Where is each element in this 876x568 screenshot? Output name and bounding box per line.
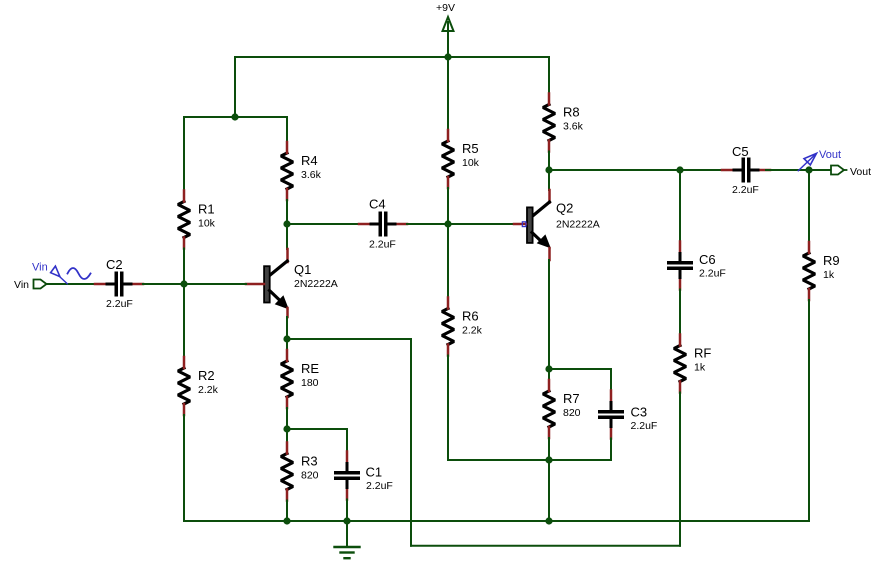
- wire x=549 R8 to collector node: [548, 152, 550, 191]
- node emitter junction (287,339): [283, 335, 290, 342]
- wire x=448 R6 bottom: [447, 356, 449, 461]
- svg-text:Vout: Vout: [819, 149, 841, 161]
- wire x=549 R7 to bottom: [548, 438, 550, 521]
- resistor RE: [281, 350, 319, 408]
- svg-text:2.2k: 2.2k: [198, 384, 219, 396]
- wire x=347 C1 top: [346, 429, 348, 452]
- wire C5 to output port: [766, 169, 830, 171]
- resistor R7: [543, 380, 581, 438]
- wire x=287 R3 to ground rail: [286, 501, 288, 522]
- node junction (549,521): [545, 517, 552, 524]
- node junction (287,429): [283, 425, 290, 432]
- wire x=287 RE to R3: [286, 408, 288, 443]
- wire x=549 top to R8: [548, 57, 550, 94]
- svg-text:R6: R6: [462, 309, 479, 324]
- svg-text:R1: R1: [198, 202, 215, 217]
- capacitor C3: [598, 391, 657, 439]
- capacitor C1: [334, 452, 393, 500]
- svg-text:R2: R2: [198, 368, 215, 383]
- node junction (235,117): [231, 113, 238, 120]
- svg-text:R7: R7: [563, 391, 580, 406]
- wire left column x=184 upper: [183, 117, 185, 191]
- svg-text:2.2uF: 2.2uF: [369, 239, 396, 251]
- probe Vin (blue): [51, 266, 91, 284]
- wire x=611 C3 bottom: [610, 439, 612, 461]
- node junction (809,170): [805, 166, 812, 173]
- wire output rail y=170: [549, 169, 726, 171]
- svg-text:820: 820: [563, 407, 581, 419]
- svg-text:RE: RE: [301, 361, 319, 376]
- transistor Q1 2N2222A: [246, 249, 338, 317]
- svg-text:2.2k: 2.2k: [462, 325, 483, 337]
- svg-text:820: 820: [301, 470, 319, 482]
- wire x=611 C3 top: [610, 369, 612, 391]
- wire x=680 C6 top: [679, 170, 681, 242]
- node junction (549,369): [545, 365, 552, 372]
- svg-text:Vin: Vin: [32, 262, 48, 274]
- svg-text:C1: C1: [366, 465, 383, 480]
- capacitor C2: [95, 257, 143, 310]
- resistor R4: [281, 142, 322, 200]
- svg-text:R8: R8: [563, 105, 580, 120]
- svg-text:1k: 1k: [694, 362, 706, 374]
- probe Vout (blue): [798, 153, 816, 170]
- wire feedback x=411 down: [410, 339, 412, 546]
- wire x=287 R4 to Q1 collector: [286, 200, 288, 249]
- wire x=680 RF to bottom feedback rail: [679, 393, 681, 546]
- svg-text:RF: RF: [694, 346, 711, 361]
- svg-text:2.2uF: 2.2uF: [631, 420, 658, 432]
- wire feedback y=339 emitter to x=411: [287, 338, 411, 340]
- svg-text:Vin: Vin: [14, 279, 29, 291]
- power +9V symbol: [436, 2, 455, 57]
- node junction (680,170): [676, 166, 683, 173]
- resistor R9: [803, 242, 840, 300]
- node junction (448,224): [444, 220, 451, 227]
- wire x=809 R9 top: [808, 170, 810, 242]
- node +9V junction: [444, 53, 451, 60]
- node Q1 collector junction (287,224): [283, 220, 290, 227]
- node junction (287,521): [283, 517, 290, 524]
- ground: [335, 521, 360, 558]
- wire y=460 R6/R7/C3 bottom link: [448, 459, 611, 461]
- wire x=184 mid: [183, 249, 185, 358]
- svg-text:R4: R4: [301, 153, 318, 168]
- svg-text:2.2uF: 2.2uF: [106, 298, 133, 310]
- svg-text:10k: 10k: [198, 218, 216, 230]
- svg-text:2N2222A: 2N2222A: [294, 278, 338, 290]
- resistor R8: [543, 94, 584, 152]
- wire Q1 emitter down: [286, 317, 288, 350]
- wire C2 to Q1 base: [143, 283, 246, 285]
- capacitor C6: [667, 242, 726, 290]
- wire x=809 R9 to ground rail: [808, 300, 810, 521]
- wire left drop from top rail: [234, 57, 236, 117]
- resistor R1: [178, 191, 216, 249]
- wire y=369 to C3: [549, 368, 611, 370]
- svg-text:2.2uF: 2.2uF: [366, 480, 393, 492]
- svg-text:R3: R3: [301, 454, 318, 469]
- svg-text:C4: C4: [369, 197, 386, 212]
- resistor R6: [442, 298, 483, 356]
- svg-text:C6: C6: [699, 252, 716, 267]
- wire y=224 collector node to C4: [287, 223, 359, 225]
- resistor R3: [281, 443, 319, 501]
- wire x=680 C6 to RF: [679, 290, 681, 335]
- node junction (549,460): [545, 456, 552, 463]
- node output junction (549,170): [545, 166, 552, 173]
- svg-text:2.2uF: 2.2uF: [732, 184, 759, 196]
- svg-text:C3: C3: [631, 405, 648, 420]
- resistor R5: [442, 130, 480, 188]
- svg-text:3.6k: 3.6k: [301, 169, 322, 181]
- svg-text:R5: R5: [462, 141, 479, 156]
- wire feedback bottom y=545.7: [411, 545, 680, 547]
- node base junction (184,284): [180, 280, 187, 287]
- wire y=117 R1/R4 top: [184, 116, 287, 118]
- svg-text:Q2: Q2: [556, 201, 573, 216]
- wire y=429 to C1: [287, 428, 347, 430]
- capacitor C4: [359, 197, 407, 251]
- transistor Q2 2N2222A: [514, 190, 600, 260]
- wire x=448 top: [447, 57, 449, 130]
- svg-text:2.2uF: 2.2uF: [699, 268, 726, 280]
- wire Q2 emitter down x=549: [548, 260, 550, 380]
- svg-text:Vout: Vout: [850, 166, 871, 178]
- svg-text:2N2222A: 2N2222A: [556, 219, 600, 231]
- port Vin input: [14, 279, 47, 291]
- svg-text:R9: R9: [823, 253, 840, 268]
- wire x=448 R5 to node: [447, 188, 449, 298]
- wire top rail +9V y=57: [235, 56, 549, 58]
- svg-text:C5: C5: [732, 144, 749, 159]
- svg-text:180: 180: [301, 377, 319, 389]
- capacitor C5: [722, 144, 770, 196]
- node junction (347,521): [343, 517, 350, 524]
- wire x=347 C1 bottom: [346, 500, 348, 522]
- svg-text:+9V: +9V: [436, 2, 455, 14]
- resistor R2: [178, 357, 219, 415]
- wire ground rail y=521: [184, 520, 809, 522]
- svg-text:Q1: Q1: [294, 262, 311, 277]
- resistor RF: [674, 335, 711, 393]
- wire x=287 top of R4: [286, 117, 288, 142]
- port Vout output: [831, 166, 871, 179]
- wire C4 to Q2 base: [407, 223, 514, 225]
- svg-text:3.6k: 3.6k: [563, 121, 584, 133]
- svg-text:1k: 1k: [823, 269, 835, 281]
- wire x=184 lower: [183, 415, 185, 521]
- svg-text:10k: 10k: [462, 157, 480, 169]
- wire input y=284 port to C2: [47, 283, 96, 285]
- svg-text:C2: C2: [106, 257, 123, 272]
